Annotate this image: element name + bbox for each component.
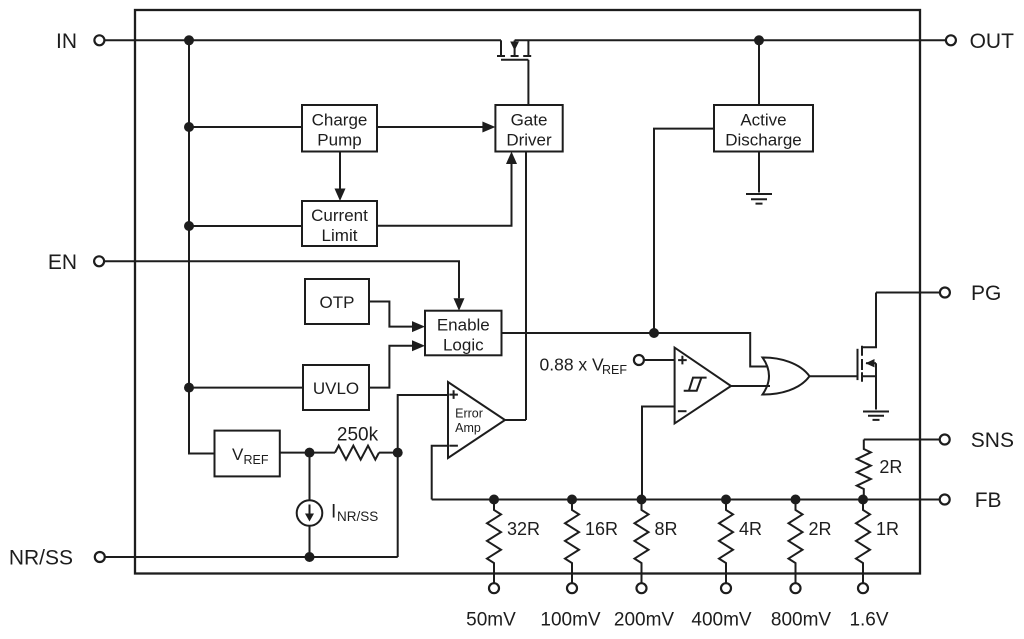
svg-text:200mV: 200mV [614, 610, 675, 631]
Q2 channel segments [861, 346, 863, 382]
U1 minus sign [449, 445, 458, 447]
junction dot VREF output node [305, 448, 315, 458]
wire U1 output to gate driver vertical [505, 419, 526, 421]
wire PG rail [876, 292, 940, 294]
ground below Q2 [863, 412, 889, 420]
Q1 body stub [514, 40, 516, 56]
svg-text:50mV: 50mV [466, 610, 516, 631]
tap terminal 1.6V [858, 583, 868, 593]
svg-text:UVLO: UVLO [313, 379, 359, 398]
wire EN to enable logic [104, 261, 459, 298]
svg-text:NR/SS: NR/SS [337, 509, 378, 524]
junction dot FB 4R [721, 495, 731, 505]
resistor 8R [635, 500, 649, 584]
junction dot UVLO tap [184, 383, 194, 393]
wire UVLO to enable logic [369, 346, 413, 388]
block Enable Logic [425, 311, 502, 356]
junction dot FB 32R [489, 495, 499, 505]
svg-text:100mV: 100mV [540, 610, 601, 631]
svg-text:0.88 x V: 0.88 x V [540, 355, 605, 375]
terminal 0.88xVREF [634, 355, 644, 365]
Q2 body arrow line [866, 362, 876, 364]
resistor 250k [335, 446, 379, 460]
junction dot 250k right node [393, 448, 403, 458]
svg-text:Logic: Logic [443, 336, 484, 355]
svg-text:Active: Active [740, 111, 786, 130]
block OTP [305, 279, 369, 324]
svg-text:EN: EN [48, 251, 77, 274]
svg-text:16R: 16R [585, 519, 618, 539]
wire 0.88xVREF to comparator + [644, 359, 675, 361]
Q2 source wire down to ground [862, 363, 876, 409]
block Current Limit [302, 201, 377, 246]
svg-text:2R: 2R [879, 457, 902, 477]
svg-text:32R: 32R [507, 519, 540, 539]
block Gate Driver [495, 105, 562, 152]
svg-text:Gate: Gate [511, 111, 548, 130]
wire OR output to Q2 gate [810, 375, 858, 377]
U1 plus sign [449, 390, 458, 399]
svg-text:4R: 4R [739, 519, 762, 539]
wire enable logic output to OR gate [502, 333, 768, 367]
arrowhead EN into enable logic [454, 298, 465, 311]
transistor Q1 pass PMOS : source stub [500, 40, 502, 56]
Q1 body arrow [510, 42, 519, 51]
wire 250k to error amp node [379, 452, 398, 454]
op-amp U1 Error Amp [448, 382, 505, 458]
Q2 drain wire up to PG rail [862, 293, 876, 348]
wire active discharge top tap [758, 40, 760, 105]
resistor 2R sense divider top [857, 440, 871, 500]
tap terminal 200mV [637, 583, 647, 593]
svg-text:Pump: Pump [317, 131, 361, 150]
svg-text:SNS: SNS [971, 429, 1014, 452]
block UVLO [303, 365, 369, 410]
pin terminal PG [940, 288, 950, 298]
junction dot charge pump tap [184, 122, 194, 132]
pin terminal NR/SS [95, 552, 105, 562]
wire active discharge to ground [758, 152, 760, 193]
svg-text:Enable: Enable [437, 316, 490, 335]
svg-text:Discharge: Discharge [725, 131, 802, 150]
arrowhead into gate driver [482, 122, 495, 133]
tap terminal 400mV [721, 583, 731, 593]
svg-text:PG: PG [971, 282, 1001, 305]
svg-text:FB: FB [975, 489, 1002, 512]
wire U1 inverting input to FB rail [432, 446, 448, 500]
IC boundary box [135, 10, 920, 574]
pin terminal OUT [946, 35, 956, 45]
wire charge pump to gate driver [377, 126, 483, 128]
junction dot NR/SS node [305, 552, 315, 562]
junction dot IN rail [184, 35, 194, 45]
comparator U2 [675, 348, 731, 424]
junction dot enable output [649, 328, 659, 338]
svg-text:2R: 2R [809, 519, 832, 539]
svg-text:250k: 250k [337, 425, 379, 446]
ground below active discharge [746, 194, 772, 204]
resistor 32R [487, 500, 501, 584]
tap terminal 800mV [791, 583, 801, 593]
current source arrow [309, 505, 311, 516]
wire SNS rail [864, 439, 940, 441]
svg-text:Charge: Charge [312, 111, 368, 130]
junction dot FB 16R [567, 495, 577, 505]
junction dot FB 1R [858, 495, 868, 505]
svg-text:8R: 8R [655, 519, 678, 539]
arrowhead into current limit [335, 189, 346, 202]
arrowhead UVLO into enable logic [412, 340, 425, 351]
wire OUT rail (pass FET body/drain to OUT pin) [515, 39, 946, 41]
Q1 drain stub [527, 40, 529, 56]
wire FB rail [432, 499, 940, 501]
resistor 2R ladder [789, 500, 803, 584]
wire error amp + feed vertical [398, 395, 448, 557]
wire enable output to active discharge [654, 129, 714, 333]
svg-text:REF: REF [602, 363, 627, 377]
wire current limit to gate driver [377, 164, 512, 226]
U2 plus sign [678, 356, 687, 365]
Q1 source contact bar [497, 55, 505, 57]
current source I_NR/SS wire [309, 453, 311, 557]
wire NR/SS [105, 556, 398, 558]
tap terminal 100mV [567, 583, 577, 593]
wire charge pump to current limit [339, 152, 341, 189]
svg-text:I: I [331, 502, 336, 523]
pin terminal EN [94, 256, 104, 266]
svg-text:400mV: 400mV [691, 610, 752, 631]
svg-text:OUT: OUT [970, 30, 1015, 53]
svg-text:Limit: Limit [322, 226, 358, 245]
junction dot active discharge on OUT rail [754, 35, 764, 45]
wire charge pump input [189, 126, 302, 128]
svg-text:Amp: Amp [455, 421, 481, 435]
svg-text:1.6V: 1.6V [849, 610, 888, 631]
block VREF [215, 431, 280, 477]
resistor 1R [856, 500, 870, 584]
arrowhead up into gate driver [506, 152, 517, 165]
wire UVLO input [189, 387, 303, 389]
junction dot FB 8R [637, 495, 647, 505]
svg-text:V: V [232, 445, 244, 464]
wire U2 output to OR gate [731, 385, 770, 387]
wire gate driver input from error amp [525, 152, 527, 421]
svg-text:Current: Current [311, 206, 368, 225]
block Charge Pump [302, 105, 377, 152]
svg-text:IN: IN [56, 30, 77, 53]
pin terminal FB [940, 495, 950, 505]
svg-text:Driver: Driver [506, 131, 552, 150]
block Active Discharge [714, 105, 813, 152]
pin terminal SNS [940, 435, 950, 445]
junction dot FB 2R [791, 495, 801, 505]
U2 minus sign [678, 410, 687, 412]
svg-text:NR/SS: NR/SS [9, 547, 73, 570]
svg-text:OTP: OTP [320, 293, 355, 312]
arrowhead OTP into enable logic [412, 321, 425, 332]
Q1 drain contact bar [523, 55, 531, 57]
resistor 16R [565, 500, 579, 584]
Q1 body contact bar [511, 55, 519, 57]
wire IN rail left (IN pin to pass FET source) [104, 39, 501, 41]
svg-text:800mV: 800mV [771, 610, 832, 631]
wire OTP to enable logic [369, 302, 413, 327]
Q1 gate plate [501, 59, 528, 61]
OR gate U3 [763, 357, 810, 394]
junction dot current limit tap [184, 221, 194, 231]
wire U2 inverting input to FB rail [642, 407, 675, 500]
pin terminal IN [94, 35, 104, 45]
wire IN vertical bus to VREF [189, 40, 215, 453]
tap terminal 50mV [489, 583, 499, 593]
resistor 4R [719, 500, 733, 584]
wire Q1 gate to gate driver [527, 60, 529, 105]
transistor Q2 (PG pulldown NMOS) gate bar [857, 349, 859, 380]
svg-text:Error: Error [455, 407, 483, 421]
wire current limit input [189, 225, 302, 227]
current source circle [297, 500, 323, 526]
U2 hysteresis symbol [684, 378, 707, 391]
svg-text:REF: REF [244, 453, 269, 467]
svg-text:1R: 1R [876, 519, 899, 539]
wire VREF output [280, 452, 335, 454]
